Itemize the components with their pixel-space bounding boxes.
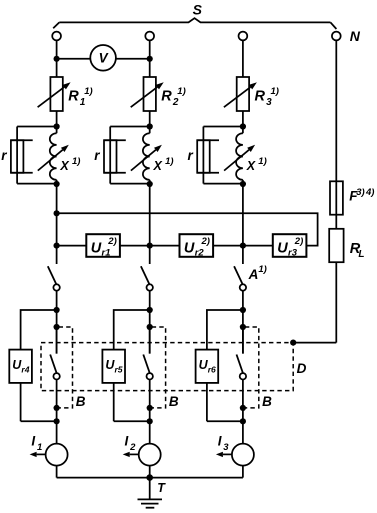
label X 1) (phase 3) [246,156,267,173]
switch phase 3 (lower shorting switch) [237,327,247,379]
wire bottom bus (source returns) [57,477,243,479]
voltmeter V [90,45,116,71]
node N terminal [332,32,341,41]
wire phase 3 vertical (lower switch to bottom bus) [242,380,244,478]
svg-text:r5: r5 [115,364,123,374]
wire Ur5 branch (loop from phase 2) [114,310,150,421]
label Ur2 2) [184,236,210,258]
label r (phase 2) [94,148,100,163]
svg-text:1: 1 [37,442,42,453]
relay Ur3 (voltage relay box) [273,234,307,257]
svg-text:V: V [99,51,109,66]
node junction phase2-voltmeter [147,56,153,62]
switch S (3-phase knife-switch blade bar with actuator kink) [53,18,336,29]
wire phase 3 vertical (switch to lower switch) [242,291,244,354]
label RL [350,241,365,260]
label X 1) (phase 2) [153,156,174,173]
label R2 1) [161,86,185,108]
label N [350,28,361,44]
svg-text:R: R [255,88,266,104]
terminal phase 3 (open circle) [239,32,248,41]
relay Ur5 (residual voltage relay box) [102,350,125,383]
current source I3 [216,444,254,466]
relay Ur2 (voltage relay box) [180,234,214,257]
svg-text:B: B [262,394,272,409]
svg-text:r: r [94,148,100,163]
label R1 1) [68,86,92,108]
label Ur5 [105,358,122,374]
svg-text:U: U [91,241,102,257]
svg-text:U: U [277,241,288,257]
svg-text:I: I [125,433,129,448]
wire phase 3 vertical (reactor bottom to switch) [242,180,244,264]
label B (phase 1) [76,394,86,409]
reactor X2 (variable arc-suppression coil) [131,133,162,180]
label Ur3 2) [277,236,303,258]
svg-text:1: 1 [80,97,86,108]
node branch top junction phase 2 [147,307,153,313]
label F 3) 4) [349,187,374,204]
svg-text:U: U [184,241,195,257]
dashed link B (phase 2 interlock bracket) [152,327,166,408]
wire from node D corner to N line [293,342,336,344]
svg-text:2: 2 [172,97,179,108]
svg-text:r: r [188,148,194,163]
switch phase 1 (upper disconnect) [48,266,60,290]
label R3 1) [255,86,279,108]
node reactor bottom junction phase 2 [147,181,153,187]
node branch bottom junction phase 1 [54,418,60,424]
node D corner junction [290,340,296,346]
svg-text:1): 1) [84,86,92,97]
terminal phase 2 (open circle) [145,32,154,41]
label A 1) [248,264,267,282]
label I1 [31,433,42,453]
node B bottom junction phase 1 [54,405,60,411]
relay Ur1 (voltage relay box) [86,234,120,257]
svg-text:1): 1) [258,156,266,167]
label X 1) (phase 1) [59,156,80,173]
svg-text:S: S [193,2,203,18]
svg-text:N: N [350,28,361,44]
relay Ur6 (residual voltage relay box) [196,350,219,383]
wire phase 2 vertical (reactor bottom to switch) [149,180,151,264]
svg-text:R: R [161,88,172,104]
switch phase 2 (upper disconnect) [141,266,153,290]
label I3 [218,433,230,453]
svg-text:A: A [248,267,259,282]
node B top junction phase 2 [147,324,153,330]
node reactor top junction phase 3 [240,123,246,129]
label Ur1 2) [91,236,117,258]
wire phase 1 vertical (switch to lower switch) [56,291,58,354]
dashed link B (phase 3 interlock bracket) [245,327,259,408]
terminal phase 1 (open circle) [52,32,61,41]
label B (phase 3) [262,394,272,409]
svg-text:1): 1) [271,86,279,97]
current source I2 [123,444,161,466]
svg-text:D: D [297,361,307,376]
resistor RL (load resistor) [329,229,343,262]
svg-text:R: R [68,88,79,104]
label r (phase 3) [188,148,194,163]
fuse F3)4) [330,181,343,214]
svg-text:2): 2) [201,236,210,247]
svg-text:X: X [153,159,163,173]
dashed link B (phase 1 interlock bracket) [59,327,73,408]
node reactor bottom junction phase 3 [240,181,246,187]
resistor r (phase 2 damping resistor, parallel branch) [104,127,150,184]
wire phase 3 vertical (terminal to reactor top) [242,40,244,133]
svg-text:3): 3) [356,187,364,198]
label I2 [125,433,137,453]
node branch top junction phase 1 [54,307,60,313]
svg-text:r2: r2 [195,247,205,258]
dashed enclosure D (common control frame) [41,343,293,391]
wire N vertical below load resistor [335,262,337,342]
wire Ur6 branch (loop from phase 3) [207,310,243,421]
node reactor bottom junction phase 1 [54,181,60,187]
svg-text:4): 4) [365,187,374,198]
svg-text:1): 1) [177,86,185,97]
svg-text:r3: r3 [288,247,298,258]
svg-text:3: 3 [266,97,272,108]
ground T (earth symbol) [138,478,163,508]
svg-text:I: I [31,433,35,448]
node upper bus junction phase1 [54,210,60,216]
svg-text:B: B [76,394,86,409]
wire phase 1 vertical (reactor bottom to switch) [56,180,58,264]
node B top junction phase 1 [54,324,60,330]
resistor r (phase 1 damping resistor, parallel branch) [11,127,57,184]
svg-text:L: L [358,249,364,260]
node reactor top junction phase 1 [54,123,60,129]
svg-text:1): 1) [258,264,266,275]
svg-text:X: X [59,159,69,173]
label Ur4 [12,358,29,374]
node branch bottom junction phase 3 [240,418,246,424]
current source I1 [30,444,68,466]
svg-text:2: 2 [129,442,136,453]
wire voltmeter (phase1 to phase2) [57,58,150,60]
node junction phase1-voltmeter [54,56,60,62]
node branch top junction phase 3 [240,307,246,313]
label r (phase 1) [1,148,7,163]
svg-text:r4: r4 [21,364,29,374]
label Ur6 [199,358,216,374]
svg-text:2): 2) [294,236,303,247]
resistor R1 (variable) [38,77,71,111]
resistor r (phase 3 damping resistor, parallel branch) [197,127,243,184]
node reactor top junction phase 2 [147,123,153,129]
svg-text:B: B [169,394,179,409]
wire phase 1 vertical (terminal to reactor top) [56,40,58,133]
wire lower bus (through Ur1 Ur2 Ur3) [57,245,307,247]
svg-text:1): 1) [72,156,80,167]
relay Ur4 (residual voltage relay box) [9,350,32,383]
svg-text:r1: r1 [102,247,111,258]
wire phase 1 vertical (lower switch to bottom bus) [56,380,58,478]
wire upper bus (phase1 to Ur3 return) [57,213,318,245]
resistor R2 (variable) [131,77,164,111]
node B bottom junction phase 2 [147,405,153,411]
switch A1) (phase 3 bypass switch) [234,266,246,290]
svg-text:I: I [218,433,222,448]
label B (phase 2) [169,394,179,409]
label T [157,481,166,495]
reactor X3 (variable arc-suppression coil) [224,133,255,180]
svg-text:X: X [246,159,256,173]
label S [193,2,203,18]
svg-text:r: r [1,148,7,163]
node lower bus junction phase 3 [240,243,246,249]
reactor X1 (variable arc-suppression coil) [38,133,69,180]
node lower bus junction phase 1 [54,243,60,249]
node lower bus junction phase 2 [147,243,153,249]
wire phase 2 vertical (lower switch to bottom bus) [149,380,151,478]
svg-text:3: 3 [223,442,229,453]
wire N vertical (terminal to fuse and load resistor) [335,40,337,228]
label D [297,361,307,376]
switch phase 2 (lower shorting switch) [143,327,153,379]
switch phase 1 (lower shorting switch) [50,327,60,379]
wire phase 2 vertical (switch to lower switch) [149,291,151,354]
wire phase 2 vertical (terminal to reactor top) [149,40,151,133]
node ground junction [146,474,153,481]
resistor R3 (variable) [224,77,257,111]
node branch bottom junction phase 2 [147,418,153,424]
node B bottom junction phase 3 [240,405,246,411]
svg-text:r6: r6 [208,364,216,374]
svg-text:2): 2) [107,236,116,247]
svg-text:1): 1) [165,156,173,167]
node B top junction phase 3 [240,324,246,330]
wire Ur4 branch (loop from phase 1) [21,310,57,421]
